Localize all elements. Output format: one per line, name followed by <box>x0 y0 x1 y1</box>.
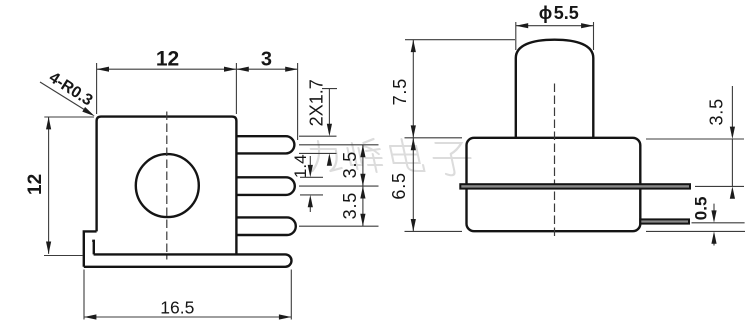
svg-text:3.5: 3.5 <box>340 151 360 178</box>
svg-text:12: 12 <box>156 47 179 70</box>
dim 16.5 extensions <box>84 270 291 320</box>
dim 12 left extensions <box>44 117 94 256</box>
left view button circle <box>136 154 199 217</box>
svg-text:3: 3 <box>261 49 272 71</box>
dim 7.5 line <box>412 40 414 138</box>
dim 2X1.7 extensions <box>299 136 337 153</box>
label 4-R0.3 leader <box>40 82 86 111</box>
watermark 子 <box>430 143 474 175</box>
dim 3.5 right extensions <box>646 139 744 186</box>
dim 7.5/6.5 extensions <box>405 40 516 232</box>
dim 16.5 line <box>84 316 291 318</box>
dim 12 left line <box>48 117 50 254</box>
watermark 电 <box>389 139 425 171</box>
bracket step <box>84 231 97 266</box>
pin 1 <box>236 136 294 153</box>
svg-text:6.5: 6.5 <box>389 172 409 199</box>
svg-text:4-R0.3: 4-R0.3 <box>46 69 96 109</box>
dim 3.5 upper line <box>362 145 364 226</box>
dim 2X1.7 leader <box>322 89 337 165</box>
pin 2 <box>236 177 294 195</box>
svg-text:1.4: 1.4 <box>291 154 310 178</box>
bracket inner lip <box>92 241 94 255</box>
dim 0.5 lines <box>713 204 715 246</box>
svg-text:3.5: 3.5 <box>340 192 360 219</box>
left view body outline <box>97 117 237 255</box>
watermark 力 <box>306 141 342 171</box>
dim 3.5 right line <box>731 86 733 197</box>
dim 0.5 extensions <box>646 223 745 232</box>
dim 6.5 line <box>412 138 414 232</box>
lower right pin <box>640 219 689 223</box>
left view center line <box>166 112 168 260</box>
pin center extensions <box>299 145 379 226</box>
dim 12 top line <box>97 68 237 70</box>
svg-text:16.5: 16.5 <box>160 298 194 318</box>
svg-text:ɸ5.5: ɸ5.5 <box>539 3 579 23</box>
dim 3 top line <box>236 68 297 70</box>
watermark 峰 <box>346 139 385 172</box>
base plate <box>84 254 292 266</box>
svg-text:12: 12 <box>25 174 46 195</box>
right view body <box>467 138 641 231</box>
dim 1.4 lines <box>309 156 311 212</box>
pin 3 <box>236 217 295 235</box>
dim phi5.5 extensions <box>516 22 594 50</box>
arrows top dims <box>97 67 109 72</box>
dim 12 top extension lines <box>97 63 298 140</box>
svg-text:2X1.7: 2X1.7 <box>307 79 327 126</box>
svg-text:7.5: 7.5 <box>390 78 410 105</box>
right view center line <box>554 84 556 239</box>
svg-text:0.5: 0.5 <box>692 197 711 221</box>
svg-text:3.5: 3.5 <box>706 98 726 125</box>
upper pin band <box>460 184 690 188</box>
dim 1.4 extensions <box>300 177 323 195</box>
dim phi5.5 line <box>516 25 594 27</box>
right view button stem <box>516 40 594 138</box>
